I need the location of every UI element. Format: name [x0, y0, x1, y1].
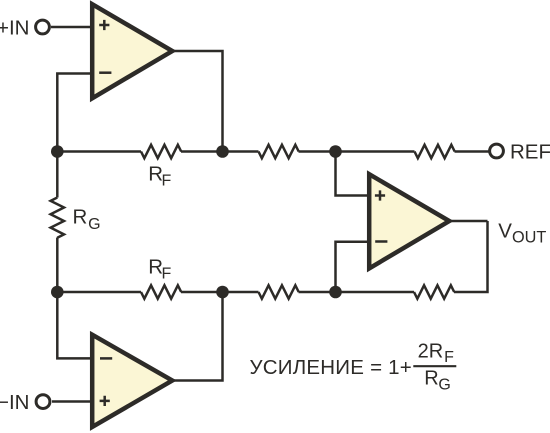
wire R3 to REF terminal: [455, 150, 490, 153]
resistor R2 (top middle): [259, 145, 299, 158]
node E junction dot: [216, 286, 229, 299]
U1 plus pin marker: [99, 20, 109, 30]
U2 minus pin marker: [100, 357, 112, 360]
resistor R_F (top): [141, 145, 181, 158]
wire R6 to output corner: [454, 221, 488, 292]
wire -IN input to U2 noninverting: [52, 400, 93, 403]
wire RF2 to node E: [181, 291, 259, 294]
wire RG to node D: [56, 238, 59, 293]
node C junction dot: [329, 145, 342, 158]
wire node D to RF2: [57, 291, 141, 294]
wire +IN input to U1 noninverting: [51, 26, 93, 29]
U3 minus pin marker: [375, 240, 387, 243]
svg-text:RG: RG: [424, 368, 451, 394]
op-amp U2 (bottom left): [92, 335, 172, 427]
op-amp U3 (right): [369, 174, 449, 268]
node B junction dot: [216, 145, 229, 158]
U1 minus pin marker: [99, 71, 111, 74]
svg-text:RG: RG: [73, 206, 101, 233]
wire U1 inverting input from node A: [57, 74, 93, 152]
terminal -IN circle: [36, 395, 50, 409]
resistor R_G: [51, 198, 64, 238]
terminal REF circle: [490, 144, 504, 158]
svg-text:2RF: 2RF: [418, 340, 455, 366]
wire U3 output: [447, 220, 488, 223]
U3 plus pin marker: [375, 190, 385, 200]
wire node C to U3 noninverting: [336, 152, 371, 196]
wire node A to RG: [56, 152, 59, 198]
svg-text:REF: REF: [510, 141, 550, 164]
wire U1 output to node B: [170, 51, 223, 152]
wire RF1 to node B: [181, 150, 259, 153]
node F junction dot: [329, 286, 342, 299]
resistor R_F (bottom): [141, 285, 181, 298]
U2 plus pin marker: [100, 396, 110, 406]
resistor R5 (bottom middle): [259, 285, 299, 298]
node D junction dot: [51, 286, 64, 299]
wire U2 output to node E: [170, 292, 223, 381]
svg-text:RF: RF: [148, 255, 171, 282]
node A junction dot: [51, 145, 64, 158]
wire node A to resistor RF1: [57, 150, 141, 153]
terminal +IN circle: [36, 20, 50, 34]
svg-text:+IN: +IN: [0, 16, 30, 39]
resistor R3 (to REF): [415, 145, 455, 158]
svg-text:УСИЛЕНИЕ = 1+: УСИЛЕНИЕ = 1+: [250, 356, 413, 379]
svg-text:−IN: −IN: [0, 391, 30, 414]
svg-text:RF: RF: [148, 162, 171, 189]
wire R2 to node C: [299, 150, 415, 153]
wire R5 to node F: [299, 291, 415, 294]
svg-text:VOUT: VOUT: [498, 219, 546, 246]
fraction bar: [413, 365, 456, 367]
wire node F to U3 inverting: [336, 242, 371, 292]
resistor R6 (feedback of U3): [414, 285, 454, 298]
op-amp U1 (top left): [92, 4, 172, 98]
wire node D to U2 inverting: [57, 292, 93, 358]
